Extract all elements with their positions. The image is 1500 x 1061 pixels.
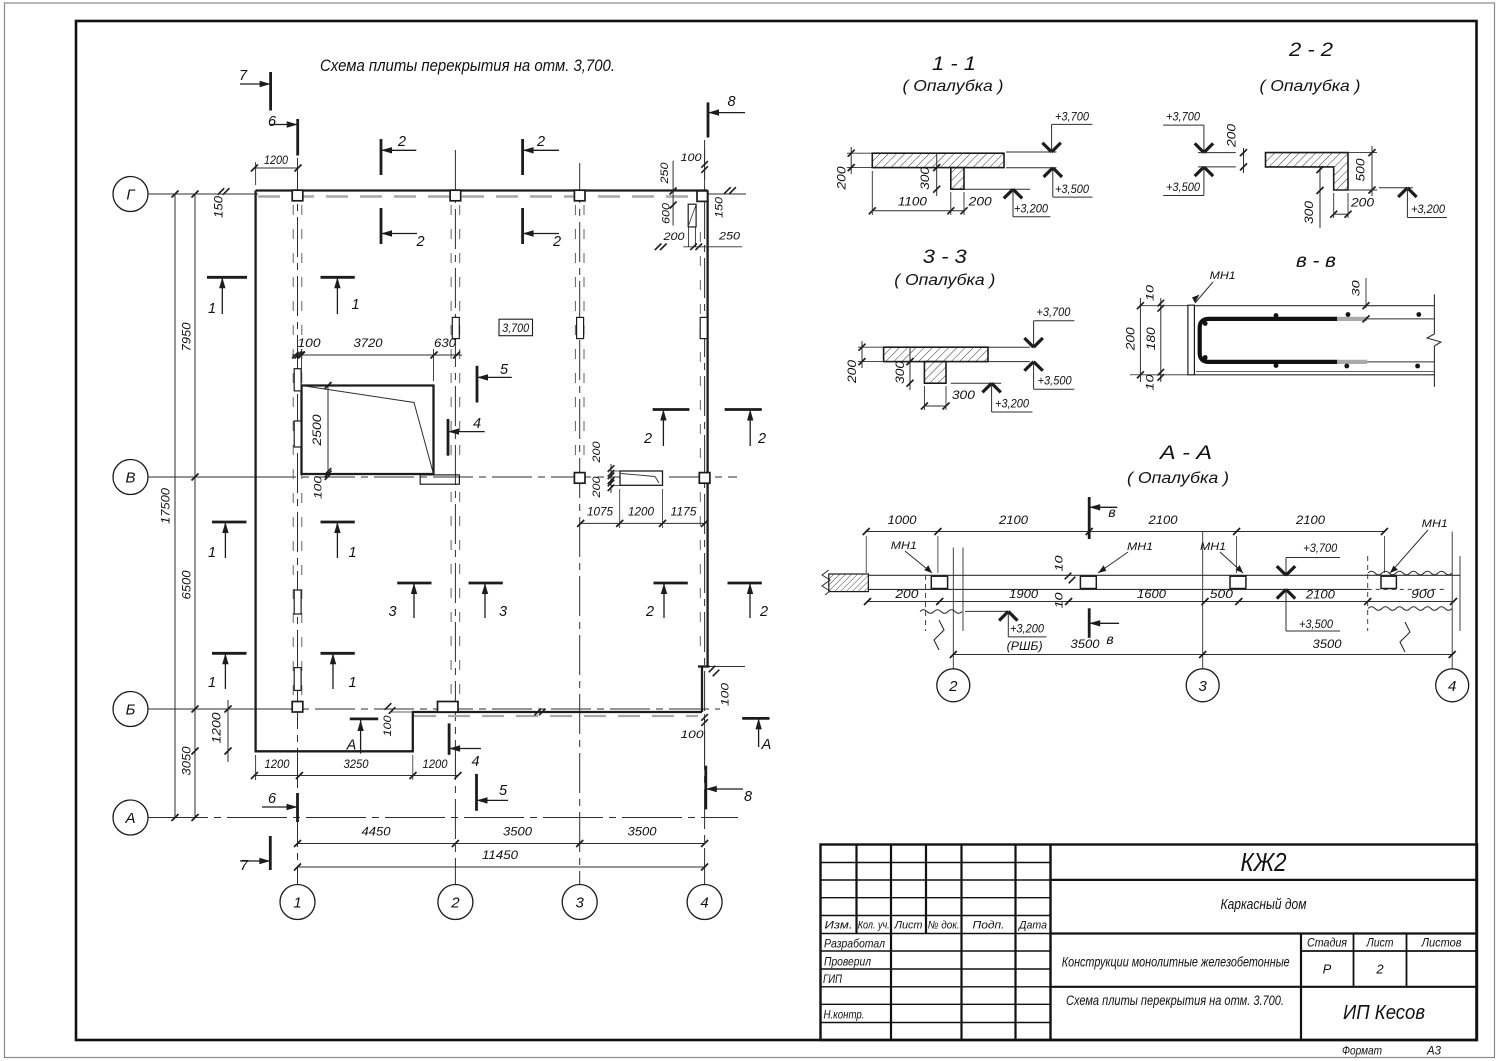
svg-text:3500: 3500 [503,827,533,839]
svg-text:2100: 2100 [1295,515,1326,527]
svg-text:№ док.: № док. [928,920,960,932]
svg-text:Подп.: Подп. [973,920,1005,932]
svg-text:200: 200 [968,197,993,209]
svg-text:1: 1 [208,675,216,691]
svg-text:Лист: Лист [1366,938,1394,950]
svg-text:Изм.: Изм. [825,920,853,932]
svg-text:500: 500 [1356,158,1368,182]
svg-text:+3,700: +3,700 [1166,112,1201,124]
svg-text:+3,200: +3,200 [1010,624,1045,636]
svg-text:1100: 1100 [898,197,928,209]
svg-text:180: 180 [1146,327,1158,351]
svg-text:1900: 1900 [1009,589,1039,601]
svg-text:3: 3 [499,604,507,620]
svg-text:250: 250 [718,231,741,243]
svg-text:200: 200 [591,475,603,498]
svg-text:1175: 1175 [671,507,698,519]
svg-text:А: А [761,737,772,753]
svg-text:17500: 17500 [161,487,173,524]
svg-text:ИП Кесов: ИП Кесов [1343,1002,1425,1024]
svg-text:10: 10 [1144,284,1156,301]
svg-text:Схема плиты перекрытия на отм.: Схема плиты перекрытия на отм. 3.700. [1066,993,1284,1008]
svg-text:3500: 3500 [1071,639,1101,651]
svg-text:2: 2 [536,134,545,150]
svg-text:100: 100 [312,475,324,499]
svg-text:1200: 1200 [265,759,291,771]
svg-text:МН1: МН1 [1210,270,1236,282]
svg-text:Каркасный дом: Каркасный дом [1221,897,1307,913]
svg-text:250: 250 [659,161,671,184]
svg-text:3: 3 [1199,678,1208,695]
svg-text:А3: А3 [1426,1044,1441,1058]
svg-text:6500: 6500 [182,570,194,600]
svg-text:в - в: в - в [1296,251,1336,272]
svg-text:А - А: А - А [1159,443,1212,464]
svg-text:1200: 1200 [628,507,655,519]
svg-text:1: 1 [208,301,216,317]
svg-text:А: А [346,738,357,754]
svg-text:4: 4 [700,895,708,912]
svg-text:1: 1 [293,895,301,912]
svg-text:6: 6 [268,114,277,130]
svg-text:+3,700: +3,700 [1303,543,1338,555]
svg-text:2: 2 [645,604,654,620]
svg-text:3 - 3: 3 - 3 [923,247,967,268]
svg-text:1: 1 [348,545,356,561]
svg-text:300: 300 [952,390,976,402]
svg-text:МН1: МН1 [1200,541,1226,553]
svg-text:+3,700: +3,700 [1055,112,1090,124]
svg-text:2: 2 [948,678,958,695]
svg-text:Формат: Формат [1342,1044,1382,1058]
svg-text:Кол. уч.: Кол. уч. [858,920,890,932]
svg-text:+3,500: +3,500 [1166,182,1201,194]
svg-text:+3,200: +3,200 [1411,204,1446,216]
svg-text:600: 600 [660,202,672,224]
svg-text:3: 3 [576,895,585,912]
svg-text:5: 5 [499,783,508,799]
svg-text:( Опалубка ): ( Опалубка ) [903,78,1004,95]
svg-text:+3,500: +3,500 [1038,376,1073,388]
svg-text:2: 2 [397,134,406,150]
svg-text:200: 200 [1350,198,1375,210]
svg-text:Б: Б [126,702,136,719]
svg-text:2 - 2: 2 - 2 [1288,40,1334,61]
svg-text:3,700: 3,700 [502,323,530,335]
svg-text:2: 2 [759,604,768,620]
svg-text:(РШБ): (РШБ) [1007,641,1043,653]
svg-text:2: 2 [415,234,424,250]
svg-text:ГИП: ГИП [823,972,842,986]
svg-text:Лист: Лист [894,920,923,932]
svg-text:Листов: Листов [1421,938,1462,950]
svg-text:4: 4 [473,416,481,432]
svg-text:1: 1 [348,675,356,691]
svg-text:200: 200 [894,589,919,601]
svg-text:7: 7 [240,858,249,874]
svg-text:3500: 3500 [1313,639,1343,651]
svg-text:1200: 1200 [423,759,449,771]
svg-text:8: 8 [744,789,752,805]
svg-text:7: 7 [239,68,248,84]
svg-text:100: 100 [681,729,705,741]
svg-text:500: 500 [1210,589,1234,601]
svg-text:300: 300 [920,166,932,190]
svg-text:3500: 3500 [628,827,658,839]
svg-text:6: 6 [268,791,277,807]
svg-text:150: 150 [214,195,226,218]
svg-text:4: 4 [1448,678,1456,695]
svg-text:630: 630 [434,338,457,350]
svg-text:Н.контр.: Н.контр. [824,1007,865,1021]
svg-text:300: 300 [1304,200,1316,224]
svg-text:в: в [1106,631,1113,647]
svg-text:+3,200: +3,200 [1014,204,1049,216]
svg-text:+3,200: +3,200 [995,399,1030,411]
svg-text:3050: 3050 [182,746,194,776]
svg-text:в: в [1108,504,1115,520]
svg-text:150: 150 [713,196,725,218]
svg-text:2100: 2100 [1305,590,1336,602]
svg-text:100: 100 [298,338,322,350]
svg-text:2: 2 [757,431,766,447]
svg-text:Дата: Дата [1017,920,1047,932]
svg-text:10: 10 [1053,591,1065,608]
svg-text:200: 200 [1227,123,1239,148]
svg-text:2500: 2500 [312,414,324,447]
svg-text:2: 2 [552,234,561,250]
svg-text:КЖ2: КЖ2 [1241,847,1287,877]
svg-text:300: 300 [895,360,907,384]
svg-text:200: 200 [591,440,603,463]
svg-text:А: А [124,810,135,827]
svg-text:8: 8 [727,94,735,110]
svg-text:( Опалубка ): ( Опалубка ) [894,272,995,289]
svg-text:2: 2 [643,431,652,447]
svg-text:10: 10 [1053,554,1065,571]
svg-text:3: 3 [388,604,396,620]
svg-text:МН1: МН1 [1127,541,1153,553]
svg-text:3250: 3250 [344,759,370,771]
svg-text:1200: 1200 [212,712,224,744]
svg-text:+3,500: +3,500 [1299,619,1334,631]
svg-text:100: 100 [719,682,731,706]
svg-text:2100: 2100 [998,515,1029,527]
svg-text:4: 4 [471,754,479,770]
svg-text:( Опалубка ): ( Опалубка ) [1260,78,1361,95]
svg-text:30: 30 [1350,279,1362,296]
svg-text:11450: 11450 [482,850,519,862]
svg-text:3720: 3720 [354,338,384,350]
svg-text:200: 200 [847,359,859,384]
svg-text:Схема плиты перекрытия на отм.: Схема плиты перекрытия на отм. 3,700. [320,56,615,75]
svg-text:Разработал: Разработал [824,937,885,951]
svg-text:7950: 7950 [182,322,194,352]
svg-text:2: 2 [450,895,460,912]
svg-text:Стадия: Стадия [1307,938,1347,950]
svg-text:+3,700: +3,700 [1036,307,1071,319]
svg-text:1: 1 [208,545,216,561]
svg-text:900: 900 [1411,589,1435,601]
svg-text:1: 1 [351,297,359,313]
svg-text:Проверил: Проверил [824,954,871,968]
svg-text:1200: 1200 [264,155,289,167]
svg-text:( Опалубка ): ( Опалубка ) [1127,470,1229,487]
svg-text:МН1: МН1 [1422,518,1448,530]
svg-text:Конструкции монолитные железоб: Конструкции монолитные железобетонные [1062,955,1290,970]
svg-text:1000: 1000 [888,515,918,527]
svg-text:1075: 1075 [587,507,614,519]
svg-text:Р: Р [1323,962,1332,977]
svg-text:4450: 4450 [362,827,392,839]
svg-text:100: 100 [382,714,394,736]
svg-text:2100: 2100 [1147,515,1178,527]
svg-text:100: 100 [681,152,703,164]
svg-text:МН1: МН1 [891,540,917,552]
svg-text:10: 10 [1144,373,1156,390]
svg-text:1600: 1600 [1137,589,1167,601]
svg-text:В: В [125,470,135,487]
svg-text:2: 2 [1375,962,1384,977]
svg-text:+3,500: +3,500 [1055,184,1090,196]
svg-text:200: 200 [662,231,685,243]
svg-text:200: 200 [837,166,849,191]
svg-text:1 - 1: 1 - 1 [932,54,976,75]
svg-text:200: 200 [1126,327,1138,352]
svg-text:5: 5 [500,362,509,378]
